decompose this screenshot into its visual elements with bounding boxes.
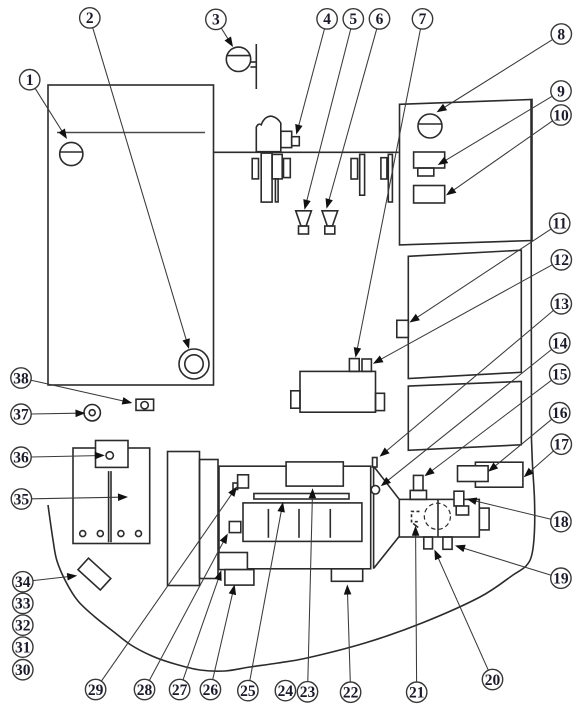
node hanger group3 clamp <box>381 158 387 179</box>
svg-text:15: 15 <box>552 366 568 383</box>
svg-text:2: 2 <box>86 10 94 27</box>
wire leader 22 <box>348 593 351 683</box>
node callout 27 <box>169 679 189 699</box>
wire leader 20 <box>438 557 489 670</box>
wire leader 21 <box>416 534 417 682</box>
node hanger group1 bar <box>261 153 272 202</box>
wire item35 divider <box>108 471 110 542</box>
wire leader 16 <box>494 419 552 467</box>
node callout 15 <box>550 364 570 384</box>
wire leader 4 <box>298 29 324 127</box>
wire leader 25 <box>250 510 282 681</box>
wire hull outline <box>48 100 535 672</box>
node manifold tall rect2 <box>200 460 219 579</box>
svg-text:19: 19 <box>553 571 569 588</box>
node gearcase right tab <box>479 508 489 530</box>
node coil right tab <box>376 393 385 410</box>
node callout 24 <box>275 680 295 700</box>
node gearcase dashed circle <box>424 503 450 529</box>
svg-text:25: 25 <box>240 683 256 700</box>
node callout 13 <box>551 294 571 314</box>
node item27 bracket <box>219 553 248 570</box>
svg-text:18: 18 <box>553 514 569 531</box>
node callout 10 <box>551 105 571 125</box>
node callout 38 <box>11 368 31 388</box>
wire leader 6 <box>329 29 377 201</box>
svg-text:14: 14 <box>552 335 568 352</box>
svg-text:8: 8 <box>557 26 565 43</box>
wire leader 11 <box>416 229 551 318</box>
node callout 22 <box>340 682 360 702</box>
wire leader 3 <box>221 28 229 40</box>
wire leader 23 <box>308 496 313 681</box>
node item4 connector <box>292 137 300 146</box>
node callout 28 <box>134 679 154 699</box>
svg-text:9: 9 <box>557 83 565 100</box>
node engine body <box>219 466 371 569</box>
node callout 9 <box>551 81 571 101</box>
wire leader 1 <box>35 88 63 132</box>
node item7 terminal <box>349 359 359 372</box>
svg-text:23: 23 <box>300 684 316 701</box>
node item5 funnel <box>296 211 312 226</box>
node coil body <box>300 371 376 412</box>
node callout 19 <box>551 568 571 588</box>
wire leader 38 <box>31 380 125 401</box>
wire fuel level line <box>57 132 205 134</box>
node hanger group2 clamp <box>351 159 358 180</box>
node item10 module <box>414 186 445 204</box>
node coil left tab <box>291 391 300 408</box>
svg-text:34: 34 <box>15 574 31 591</box>
svg-text:20: 20 <box>485 672 501 689</box>
svg-text:6: 6 <box>376 11 384 28</box>
wire leader 17 <box>530 451 554 472</box>
wire leader 18 <box>474 501 551 519</box>
node item19 plug <box>443 537 452 549</box>
node callout 8 <box>551 24 571 44</box>
node callout 23 <box>297 682 317 702</box>
node callout 30 <box>13 660 33 680</box>
wire leader 36 <box>31 456 97 457</box>
svg-text:38: 38 <box>13 370 29 387</box>
node item35 bracket plate <box>73 448 150 544</box>
node item12 terminal <box>362 359 371 371</box>
node callout 26 <box>200 679 220 699</box>
node item29 fitting <box>238 475 249 488</box>
node item17 bracket <box>475 462 523 487</box>
node callout 34 <box>13 572 33 592</box>
node callout 33 <box>13 593 33 613</box>
svg-text:37: 37 <box>13 407 29 424</box>
node gearcase body <box>399 499 479 537</box>
node callout 2 <box>80 8 100 28</box>
node callout 17 <box>551 434 571 454</box>
svg-text:7: 7 <box>419 11 427 28</box>
wire leader 10 <box>453 121 553 191</box>
node callout 3 <box>206 9 226 29</box>
node hanger group3 bar <box>388 154 392 202</box>
node hanger group2 bar <box>360 154 365 195</box>
node item24 cover <box>286 462 343 486</box>
node callout 21 <box>407 682 427 702</box>
node item26 bracket <box>225 570 254 586</box>
node callout 31 <box>13 637 33 657</box>
wire leader 35b <box>32 497 120 499</box>
node hanger group1 clamp <box>252 159 258 179</box>
node callout 35 <box>11 489 31 509</box>
node panel box2 <box>408 250 521 378</box>
wire leader 14 <box>387 349 552 481</box>
svg-text:29: 29 <box>88 682 104 699</box>
node callout 7 <box>412 9 432 29</box>
node callout 4 <box>317 9 337 29</box>
node item9 relay <box>414 152 445 168</box>
wire leader 7 <box>357 29 420 350</box>
svg-text:27: 27 <box>172 682 188 699</box>
node callout 12 <box>551 250 571 270</box>
wire bevel top <box>374 467 399 500</box>
node item3 cap symbol with bracket <box>226 47 250 71</box>
svg-text:32: 32 <box>15 617 31 634</box>
node item28 fitting <box>229 522 241 533</box>
svg-text:16: 16 <box>552 405 568 422</box>
node fuel-tank box top-left <box>48 85 214 385</box>
svg-text:1: 1 <box>26 72 34 89</box>
node item8 cap symbol <box>418 114 442 138</box>
node electrical box1 <box>400 100 533 245</box>
node callout 20 <box>482 669 502 689</box>
svg-text:30: 30 <box>15 662 31 679</box>
svg-text:5: 5 <box>349 11 357 28</box>
wire leader 13 <box>386 310 554 451</box>
node item23 cylinder block <box>243 503 362 542</box>
wire leader 2 <box>93 28 187 342</box>
wire leader 26 <box>213 592 233 679</box>
node item20 plug <box>424 537 433 549</box>
node item16 bracket <box>458 466 489 482</box>
node hanger group1 stem <box>275 179 278 202</box>
node callout 16 <box>550 403 570 423</box>
wire leader 5 <box>307 29 351 202</box>
node hanger group1 clamp2 <box>284 159 291 178</box>
svg-text:24: 24 <box>278 683 294 700</box>
node hanger group1 block <box>272 154 282 179</box>
node item21 dashed clip <box>412 511 420 521</box>
node item37 grommet <box>84 405 100 421</box>
node callout 1 <box>20 70 40 90</box>
node item1 cap symbol <box>60 142 83 165</box>
node item25 strip <box>254 494 349 500</box>
wire leader 19 <box>463 548 552 575</box>
node item13 stub <box>373 458 378 468</box>
svg-text:17: 17 <box>554 437 570 454</box>
wire leader 28 <box>149 541 224 681</box>
node item2 filler double circle <box>179 349 209 379</box>
svg-text:31: 31 <box>15 639 31 656</box>
svg-text:21: 21 <box>409 685 425 702</box>
node callout 5 <box>343 9 363 29</box>
node item34 pad <box>78 558 111 590</box>
wire leader 27 <box>183 578 219 680</box>
wire leader 9 <box>445 96 553 161</box>
node item14 ring <box>371 486 379 494</box>
node panel box3 <box>408 381 521 450</box>
svg-text:26: 26 <box>203 682 219 699</box>
wire leader 8 <box>443 39 552 108</box>
node pump flange <box>281 131 292 147</box>
svg-text:12: 12 <box>554 252 570 269</box>
svg-text:22: 22 <box>343 685 359 702</box>
wire bevel bottom <box>374 536 399 568</box>
node callout 25 <box>238 680 258 700</box>
node item35 holes <box>80 531 86 537</box>
svg-text:4: 4 <box>323 11 331 28</box>
node item6 funnel <box>322 211 338 226</box>
svg-text:36: 36 <box>13 450 29 467</box>
node callout 37 <box>11 404 31 424</box>
svg-text:33: 33 <box>15 596 31 613</box>
node item18 fitting <box>454 491 464 506</box>
node callout 32 <box>13 615 33 635</box>
node item22 tab <box>331 569 362 582</box>
svg-text:10: 10 <box>553 107 569 124</box>
node callout 36 <box>11 447 31 467</box>
wire leader 34 <box>33 577 69 581</box>
node item38 sensor <box>136 399 154 410</box>
svg-text:13: 13 <box>554 296 570 313</box>
svg-text:11: 11 <box>552 216 567 233</box>
svg-text:35: 35 <box>14 491 30 508</box>
wire leader 15 <box>431 380 552 471</box>
svg-text:3: 3 <box>212 12 220 29</box>
wire top rail <box>214 151 399 153</box>
node manifold tall rect <box>168 452 200 586</box>
node item15 fitting <box>414 475 424 490</box>
node callout 14 <box>550 333 570 353</box>
svg-text:28: 28 <box>137 682 153 699</box>
node callout 18 <box>551 511 571 531</box>
wire leader 37 <box>31 412 77 415</box>
node item36 block <box>96 441 129 468</box>
wire leader 12 <box>380 265 553 360</box>
node item11 bracket <box>397 320 409 337</box>
node callout 6 <box>369 9 389 29</box>
node callout 29 <box>85 679 105 699</box>
node pump housing <box>256 116 281 152</box>
wire leader 29 <box>101 493 232 681</box>
node callout 11 <box>550 213 570 233</box>
